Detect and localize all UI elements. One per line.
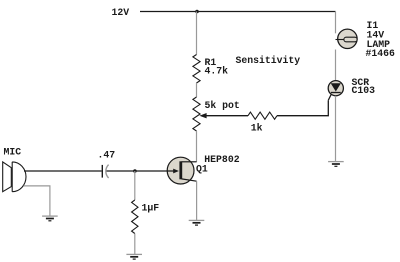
wire wiper to 1k [206, 115, 249, 117]
junction base node to 1uF [133, 169, 137, 173]
ground 1uF [126, 254, 142, 259]
SCR cathode bar [331, 92, 341, 94]
potentiometer 5k pot body [193, 97, 200, 131]
capacitor .47 left plate [101, 165, 103, 178]
wire mic to cap [24, 170, 102, 172]
transistor Q1 base bar [179, 161, 182, 179]
ground SCR [328, 162, 344, 167]
svg-text:MIC: MIC [4, 146, 22, 157]
wire gate diagonal into SCR [328, 94, 331, 100]
wire SCR cathode down [335, 96, 337, 162]
lamp filament pill [344, 37, 357, 42]
svg-text:Q1: Q1 [196, 163, 208, 174]
svg-text:1k: 1k [251, 123, 263, 134]
resistor 1k [248, 112, 277, 119]
SCR triangle [331, 83, 341, 91]
resistor R1 4.7k [193, 55, 200, 84]
svg-text:C103: C103 [352, 85, 376, 96]
wire emitter down [196, 181, 198, 220]
transistor emitter stub [182, 179, 197, 181]
wire mic return [24, 186, 50, 216]
svg-text:Sensitivity: Sensitivity [236, 55, 301, 66]
junction top rail to R1 [195, 10, 199, 14]
wire 1k to gate riser [277, 100, 328, 116]
wire lamp to SCR [335, 50, 337, 82]
microphone MIC cone [3, 162, 12, 192]
lamp filament lead [336, 39, 347, 41]
svg-text:5k pot: 5k pot [205, 100, 240, 111]
transistor Q1 body [167, 157, 194, 184]
capacitor .47 right plate [106, 165, 109, 178]
ground emitter [189, 220, 205, 225]
wire base lead [106, 170, 174, 172]
ground mic [42, 216, 58, 221]
pot wiper arrow [199, 113, 206, 118]
svg-text:4.7k: 4.7k [205, 66, 229, 77]
svg-text:1µF: 1µF [142, 203, 160, 214]
svg-text:.47: .47 [98, 150, 116, 161]
wire pot to transistor collector [196, 131, 198, 162]
svg-text:HEP802: HEP802 [204, 154, 239, 165]
wire node down to 1uF [134, 171, 136, 200]
SCR body [328, 81, 343, 96]
wire 12V junction down to R1 [196, 12, 198, 55]
wire 12V top rail [140, 11, 336, 13]
base arrowhead [173, 169, 179, 174]
svg-text:#1466: #1466 [366, 48, 396, 59]
wire R1 to pot [196, 83, 198, 97]
lamp I1 body [338, 29, 357, 48]
wire 1uF to ground [134, 234, 136, 255]
microphone MIC dome [12, 162, 26, 192]
wire top rail corner down to lamp [335, 12, 337, 34]
capacitor 1uF (zigzag style) [132, 200, 138, 234]
svg-text:12V: 12V [112, 7, 130, 18]
transistor collector stub [182, 161, 197, 163]
